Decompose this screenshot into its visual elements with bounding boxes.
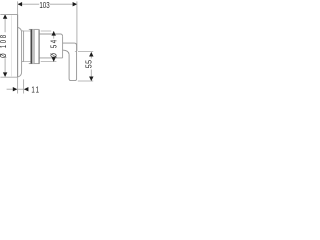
dimension 103 line (18, 3, 77, 5)
faint auxiliary line (10, 15, 12, 77)
dimension 103 left arrow (18, 2, 23, 6)
svg-text:Ø 54: Ø 54 (49, 38, 59, 58)
lever outer outline (63, 43, 77, 81)
escutcheon front profile (18, 27, 22, 77)
grip right face (62, 36, 64, 58)
hub bottom edge (22, 61, 24, 63)
extension line top for Ø54 (24, 30, 52, 32)
escutcheon back edge (wall line) (17, 15, 19, 78)
dimension Ø54 line (53, 31, 55, 61)
collar dark band (31, 29, 33, 63)
extension line bottom for 55 (78, 80, 93, 82)
dimension 11 right arrow (24, 87, 29, 91)
extension line right for 103 (76, 1, 78, 51)
dimension 103 right arrow (73, 2, 78, 6)
svg-text:103: 103 (39, 0, 49, 10)
dimension 55 line (90, 55, 92, 78)
extension line right for 11 (23, 79, 25, 93)
svg-text:Ø 108: Ø 108 (0, 33, 8, 58)
dimension 55 top arrow (89, 52, 93, 57)
extension line left for 11 (17, 77, 19, 93)
collar bottom edge (29, 63, 40, 65)
dimension Ø108 bottom arrow (3, 72, 7, 77)
dimension 11 tail line (7, 88, 13, 90)
collar top edge (29, 28, 39, 30)
svg-text:55: 55 (84, 60, 94, 69)
extension line left for 103 (17, 1, 19, 14)
dimension Ø108 top arrow (3, 14, 7, 19)
dimension Ø108 line (4, 18, 6, 75)
extension line bottom for Ø54 (24, 61, 57, 63)
dimension 55 bottom arrow (89, 77, 93, 82)
extension line axis tick (lever pivot) (75, 51, 93, 53)
collar shade edge (33, 29, 35, 63)
extension line top for Ø108 (0, 14, 17, 16)
svg-text:11: 11 (31, 84, 40, 94)
grip bottom edge (40, 57, 63, 59)
dimension 11 left arrow (13, 87, 18, 91)
collar shaded band (32, 29, 34, 63)
lever inner bend (63, 50, 70, 54)
grip top edge (40, 34, 63, 36)
hub top edge (22, 30, 24, 32)
dimension 11 line between extensions (18, 88, 24, 90)
hub front face (23, 31, 25, 62)
dimension Ø54 top arrow (52, 31, 56, 36)
collar right edge (38, 29, 40, 63)
dimension Ø54 bottom arrow (52, 57, 56, 62)
extension line bottom for Ø108 (0, 76, 17, 78)
